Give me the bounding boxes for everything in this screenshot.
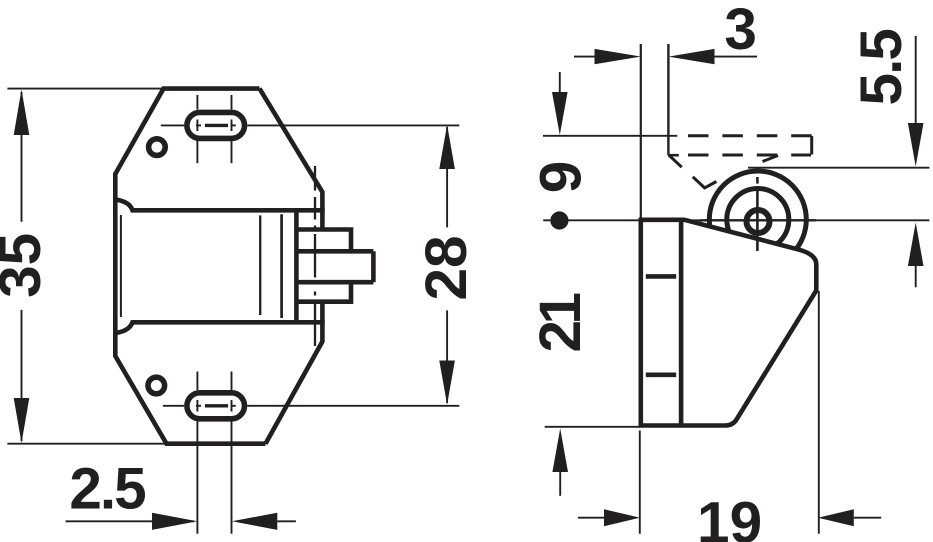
lower screw hole (148, 377, 165, 394)
bottom mounting slot (187, 393, 245, 419)
side view roller outer circle (709, 171, 806, 268)
svg-text:9: 9 (528, 161, 593, 194)
svg-text:21: 21 (528, 294, 593, 353)
svg-text:5.5: 5.5 (849, 30, 914, 106)
top slot horizontal centerline (161, 124, 460, 126)
reference dot (543, 211, 568, 229)
dimension 3 line and arrows (574, 49, 757, 64)
strike plate bent lip (668, 44, 778, 188)
svg-text:28: 28 (414, 235, 479, 300)
dimension 21 arrow (552, 429, 568, 496)
roller pin circle (747, 210, 770, 233)
dimension 19 line and arrows (578, 509, 881, 526)
roller horizontal centerline (551, 219, 930, 221)
top slot vertical centerlines (197, 95, 231, 163)
strike plate dashed outline (688, 136, 812, 155)
latch case band (115, 200, 324, 334)
roller top tangent line (748, 167, 929, 169)
dimension 35 extension lines (7, 89, 166, 444)
dimension 5.5 line and arrows (908, 36, 924, 287)
side view flange edge (679, 220, 684, 426)
latch tongue (296, 249, 373, 254)
side view roller middle circle (727, 189, 789, 251)
dimension 2.5 line and arrows (66, 513, 296, 530)
svg-text:35: 35 (0, 233, 53, 298)
side view lower tick (646, 372, 676, 377)
svg-text:3: 3 (724, 0, 757, 62)
bottom slot vertical centerlines (197, 372, 231, 534)
svg-text:2.5: 2.5 (69, 457, 145, 522)
dimension 9 arrow (552, 72, 568, 135)
front view body outline (115, 89, 322, 444)
upper screw hole (149, 139, 166, 156)
dimension 21 extension line (545, 426, 640, 428)
side view upper tick (646, 274, 676, 279)
bottom slot horizontal centerline (163, 405, 459, 407)
roller vertical centerline (756, 177, 759, 251)
svg-text:19: 19 (697, 491, 762, 542)
dimension 28 line and arrows (439, 125, 455, 405)
latch housing block (296, 230, 351, 252)
dimension 19 extension lines (640, 291, 819, 534)
dimension 3 extension line (640, 44, 642, 218)
latch vertical centerline (314, 166, 316, 346)
side view body outline (641, 220, 817, 426)
top mounting slot (187, 112, 245, 138)
dimension 35 line and arrows (14, 90, 30, 444)
dimension 9 extension line (543, 135, 677, 137)
